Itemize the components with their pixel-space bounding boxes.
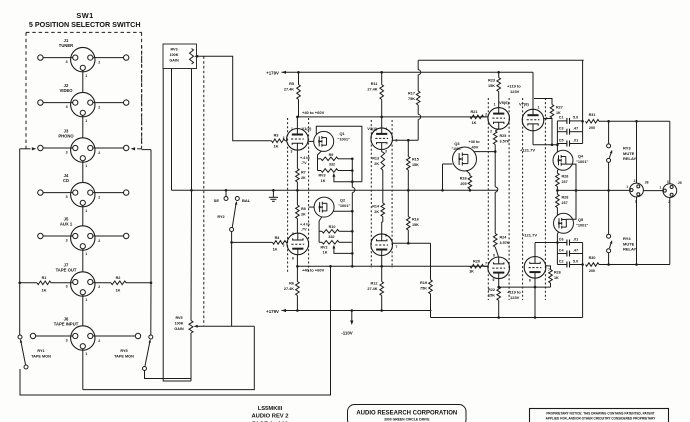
svg-text:Q3: Q3	[454, 141, 460, 146]
svg-text:27.4K: 27.4K	[367, 287, 377, 291]
gang dashed link to phono	[141, 46, 143, 144]
svg-text:27.4K: 27.4K	[284, 88, 294, 92]
svg-text:R2: R2	[116, 276, 121, 280]
svg-text:VIDEO: VIDEO	[59, 88, 73, 93]
svg-text:15K: 15K	[488, 294, 495, 298]
wire J8 pin1 output line	[557, 189, 629, 191]
svg-text:3: 3	[385, 150, 387, 154]
wire RV3 wiper to V1 grid	[197, 56, 272, 141]
svg-text:332: 332	[329, 162, 335, 166]
ground center	[272, 189, 275, 192]
svg-text:R20: R20	[473, 259, 480, 263]
resistor R27 1K	[534, 99, 552, 105]
wire phono input arrows	[20, 148, 31, 150]
svg-text:3: 3	[66, 151, 68, 155]
resistor R14 2K	[381, 203, 385, 217]
wire J2 right lead	[93, 102, 124, 104]
wire selector chain	[82, 70, 84, 92]
capacitor C6 .01	[557, 242, 567, 244]
capacitor C1 5.0	[557, 120, 567, 122]
svg-text:15K: 15K	[488, 84, 495, 88]
wire J2 left lead	[43, 102, 73, 104]
svg-text:C6: C6	[559, 237, 564, 241]
wire cap left bus lower	[557, 232, 558, 265]
svg-text:237: 237	[562, 180, 568, 184]
svg-text:332: 332	[328, 235, 334, 239]
wire RV3 leg to bus	[171, 69, 173, 191]
svg-text:7: 7	[283, 244, 285, 248]
wire Q1 drain loop	[316, 126, 362, 182]
svg-text:8: 8	[493, 254, 495, 258]
resistor R25 3.57K	[493, 131, 497, 145]
wire J4 left lead	[43, 192, 73, 194]
svg-text:1K: 1K	[469, 270, 474, 274]
triode V7(8) lower	[524, 257, 546, 279]
capacitor C5 .01	[557, 143, 567, 145]
svg-text:"1001": "1001"	[338, 136, 350, 141]
svg-text:6: 6	[493, 278, 495, 282]
wire Q1 source	[318, 151, 322, 171]
svg-text:100K: 100K	[170, 53, 179, 57]
resistor R8 2K	[296, 190, 298, 205]
svg-text:200: 200	[589, 126, 595, 130]
resistor R28 237	[557, 169, 558, 173]
svg-text:R22: R22	[488, 288, 495, 292]
svg-text:R7: R7	[301, 171, 306, 175]
wire V7 lower plate to rail	[534, 278, 536, 318]
svg-text:R13: R13	[372, 157, 379, 161]
svg-text:1K: 1K	[321, 179, 326, 183]
svg-text:RELAY: RELAY	[623, 247, 637, 252]
svg-text:27.4K: 27.4K	[284, 287, 294, 291]
svg-text:75K: 75K	[420, 287, 427, 291]
triode V5(6) upper	[488, 108, 510, 130]
resistor R26 1K	[545, 266, 550, 270]
wire Q2 drain	[334, 210, 353, 212]
svg-text:TAPE MON: TAPE MON	[114, 355, 134, 359]
svg-text:TUNER: TUNER	[59, 43, 73, 48]
wire trim right bus	[351, 159, 353, 188]
wire J3 left lead	[43, 147, 73, 149]
svg-text:+40 to +60V: +40 to +60V	[302, 267, 325, 272]
svg-text:MUTE: MUTE	[623, 151, 635, 156]
svg-text:TAPE INPUT: TAPE INPUT	[54, 322, 79, 327]
relay RY3 MUTE RELAY	[608, 121, 610, 144]
svg-text:TAPE MON: TAPE MON	[31, 355, 51, 359]
svg-text:7: 7	[548, 268, 550, 272]
resistor R29 237	[556, 194, 560, 207]
wire J4 right lead	[93, 192, 124, 194]
svg-text:R23: R23	[488, 79, 495, 83]
wire left input bus	[19, 149, 21, 283]
svg-text:3: 3	[66, 285, 68, 289]
potentiometer RV3 100K GAIN	[163, 44, 197, 69]
dashed envelope V1/V2	[287, 118, 289, 272]
svg-text:AUX 1: AUX 1	[60, 222, 73, 227]
svg-text:1: 1	[85, 74, 87, 78]
wire cap right bus upper	[582, 60, 584, 143]
svg-text:C1: C1	[559, 116, 564, 120]
svg-text:J8: J8	[645, 180, 649, 184]
switch SE contact	[225, 189, 228, 192]
wire J3 right lead	[93, 147, 124, 149]
svg-text:+179V: +179V	[266, 71, 279, 76]
svg-text:3: 3	[66, 105, 68, 109]
svg-text:CD: CD	[63, 178, 69, 183]
wire cathode to Q3	[495, 129, 499, 131]
svg-text:1K: 1K	[273, 248, 278, 252]
svg-text:5 POSITION SELECTOR SWITCH: 5 POSITION SELECTOR SWITCH	[29, 20, 141, 29]
svg-text:3: 3	[66, 239, 68, 243]
wire Q2 source	[319, 217, 322, 243]
svg-text:1K: 1K	[274, 145, 279, 149]
svg-text:1: 1	[626, 185, 628, 189]
svg-text:2: 2	[98, 339, 100, 343]
svg-text:.01: .01	[573, 138, 578, 142]
svg-text:2: 2	[98, 61, 100, 65]
svg-text:3.57K: 3.57K	[500, 139, 510, 143]
svg-text:3: 3	[66, 339, 68, 343]
svg-text:"1001": "1001"	[451, 147, 462, 151]
connector J8 output	[636, 121, 638, 183]
wire J6 throw contacts	[36, 335, 73, 337]
svg-text:2K: 2K	[374, 210, 379, 214]
svg-text:1: 1	[494, 103, 496, 107]
svg-text:8: 8	[292, 232, 294, 236]
svg-text:"1001": "1001"	[338, 203, 350, 208]
svg-text:3900 GREEN CIRCLE DRIVE: 3900 GREEN CIRCLE DRIVE	[384, 418, 430, 422]
wire Q5 source tap	[566, 190, 576, 219]
svg-text:2: 2	[283, 136, 285, 140]
svg-text:"1001": "1001"	[576, 222, 588, 227]
svg-text:15K: 15K	[412, 163, 419, 167]
svg-text:R5: R5	[289, 82, 294, 86]
svg-text:3: 3	[634, 179, 636, 183]
svg-text:2: 2	[98, 196, 100, 200]
wire V5 lower plate node	[499, 286, 551, 288]
svg-text:6: 6	[292, 257, 294, 261]
svg-text:40V: 40V	[472, 145, 479, 149]
svg-text:V3(4): V3(4)	[367, 126, 377, 131]
capacitor C2 5.0	[557, 264, 567, 266]
svg-text:1K: 1K	[556, 111, 561, 115]
triode V1(2) lower	[287, 233, 309, 255]
gang dashed link RV3-RV5	[203, 56, 205, 325]
svg-text:+179V: +179V	[266, 309, 279, 314]
resistor R18 205	[466, 170, 470, 175]
svg-text:RY3: RY3	[623, 146, 631, 151]
wire V7 upper cathode	[532, 130, 534, 144]
svg-text:.7V: .7V	[301, 228, 307, 232]
svg-text:V5(6): V5(6)	[499, 100, 509, 105]
wire -110V feed	[351, 309, 354, 312]
wire V3 plate pin2 line	[392, 139, 418, 141]
wire RY1 return	[20, 369, 26, 395]
dashed envelope V5/V6	[487, 98, 489, 300]
resistor R19 75K	[430, 243, 432, 280]
svg-text:R11: R11	[371, 82, 378, 86]
svg-text:237: 237	[562, 201, 568, 205]
svg-text:7: 7	[485, 262, 487, 266]
svg-text:2: 2	[98, 151, 100, 155]
capacitor C3 .47	[557, 131, 567, 133]
wire cap right bus lower	[582, 243, 584, 318]
svg-text:SW1: SW1	[76, 11, 93, 20]
wire V3 lower pin7 line	[392, 242, 430, 244]
resistor R24 3.57K	[493, 234, 497, 248]
svg-text:RV2: RV2	[320, 245, 327, 249]
svg-text:V7(8): V7(8)	[519, 102, 529, 107]
svg-text:.47: .47	[573, 127, 578, 131]
svg-text:C3: C3	[559, 127, 564, 131]
capacitor C4 .47	[557, 253, 567, 255]
svg-text:R25: R25	[500, 134, 507, 138]
svg-text:PHONO: PHONO	[58, 134, 74, 139]
svg-text:3: 3	[667, 180, 669, 184]
svg-text:1K: 1K	[472, 121, 477, 125]
potentiometer RV2 1K trim	[319, 241, 322, 243]
mosfet Q3	[453, 147, 477, 171]
dashed selector enclosure	[26, 31, 142, 33]
svg-text:2K: 2K	[301, 176, 306, 180]
svg-text:27.4K: 27.4K	[367, 88, 377, 92]
svg-text:R30: R30	[589, 256, 596, 260]
dashed envelope V3/V4	[370, 120, 372, 268]
svg-text:5.0: 5.0	[573, 116, 578, 120]
svg-text:3: 3	[66, 60, 68, 64]
svg-text:R18: R18	[460, 177, 467, 181]
resistor R13 2K	[381, 149, 383, 152]
svg-text:3: 3	[490, 130, 492, 134]
wire J1 left lead	[43, 57, 73, 59]
svg-text:RY1: RY1	[37, 349, 44, 353]
relay RY1 TAPE MON	[18, 335, 22, 339]
wire J1 right lead	[93, 57, 124, 59]
svg-text:RY4: RY4	[623, 236, 631, 241]
svg-text:1K: 1K	[554, 276, 559, 280]
svg-text:1: 1	[291, 127, 293, 131]
svg-text:AUDIO RESEARCH CORPORATION: AUDIO RESEARCH CORPORATION	[356, 411, 457, 417]
svg-text:1: 1	[85, 164, 87, 168]
resistor R2 2K	[296, 169, 300, 183]
svg-text:R12: R12	[371, 282, 378, 286]
svg-text:RELAY: RELAY	[623, 156, 637, 161]
title box AUDIO RESEARCH CORPORATION	[348, 405, 467, 422]
svg-text:GAIN: GAIN	[174, 327, 184, 331]
svg-text:1: 1	[85, 252, 87, 256]
switch BAL contact	[235, 197, 239, 201]
svg-text:R1: R1	[42, 276, 47, 280]
svg-text:2: 2	[485, 113, 487, 117]
wire mute bus	[608, 162, 610, 234]
svg-text:7: 7	[396, 245, 398, 249]
svg-text:-110V: -110V	[341, 331, 353, 336]
potentiometer RV3 1K trim	[318, 170, 322, 172]
svg-text:R8: R8	[301, 207, 306, 211]
mosfet Q4	[553, 150, 573, 170]
wire lower rail step	[430, 311, 432, 318]
svg-text:200: 200	[589, 269, 595, 273]
mosfet Q1	[314, 131, 334, 151]
resistor R16 15K	[407, 190, 409, 216]
wire RY5 return	[145, 371, 192, 379]
svg-text:MUTE: MUTE	[623, 241, 635, 246]
wire J9 pin1	[643, 190, 663, 192]
svg-text:Q1: Q1	[340, 131, 346, 136]
svg-text:PROPRIETARY NOTICE: THIS DRA: PROPRIETARY NOTICE: THIS DRAWING CONTAIN…	[546, 411, 654, 415]
svg-text:GAIN: GAIN	[169, 59, 179, 63]
svg-text:+40 to +60V: +40 to +60V	[302, 110, 325, 115]
svg-text:3.57K: 3.57K	[500, 241, 510, 245]
svg-text:1: 1	[85, 209, 87, 213]
svg-text:R19: R19	[420, 281, 427, 285]
svg-text:R14: R14	[372, 205, 380, 209]
svg-text:R21: R21	[471, 110, 478, 114]
wire gain-pot low return	[163, 69, 191, 382]
wire cathode link	[382, 170, 384, 203]
triode V1(2) upper	[287, 129, 309, 151]
svg-text:205: 205	[460, 182, 466, 186]
mosfet Q5	[554, 213, 574, 233]
svg-text:2: 2	[98, 106, 100, 110]
wire top rail to output	[418, 59, 584, 61]
svg-text:6: 6	[529, 279, 531, 283]
wire R24 feed link	[494, 152, 496, 187]
svg-text:Q4: Q4	[578, 154, 584, 159]
svg-text:3: 3	[66, 195, 68, 199]
svg-text:.47: .47	[573, 248, 578, 252]
wire right input bus	[150, 150, 152, 283]
svg-text:1: 1	[85, 119, 87, 123]
dashed envelope V7/V8	[522, 98, 524, 300]
svg-text:RY2: RY2	[217, 215, 224, 219]
svg-text:1K: 1K	[323, 251, 328, 255]
svg-text:Q2: Q2	[340, 198, 346, 203]
wire cap left bus upper	[556, 121, 558, 152]
svg-text:1K: 1K	[116, 289, 121, 293]
svg-text:1: 1	[85, 298, 87, 302]
connector J9 output	[669, 121, 671, 183]
svg-text:+121.7V: +121.7V	[522, 233, 537, 238]
svg-text:2K: 2K	[301, 212, 306, 216]
svg-text:1: 1	[660, 186, 662, 190]
wire J5 left lead	[43, 235, 73, 237]
svg-text:R31: R31	[589, 113, 596, 117]
relay RY4 MUTE RELAY	[607, 234, 611, 238]
svg-text:2: 2	[98, 239, 100, 243]
svg-text:R28: R28	[562, 196, 569, 200]
svg-text:123V: 123V	[510, 295, 520, 300]
svg-text:RY5: RY5	[120, 349, 127, 353]
wire RV3 to RV5 leg	[191, 69, 193, 191]
svg-text:LS5MKIII: LS5MKIII	[258, 406, 283, 412]
svg-text:.7V: .7V	[301, 161, 307, 165]
svg-text:R10: R10	[329, 225, 336, 229]
svg-text:"1001": "1001"	[576, 159, 588, 164]
triode V7(8) upper	[532, 72, 534, 109]
svg-text:R27: R27	[556, 106, 563, 110]
svg-text:TAPE OUT: TAPE OUT	[56, 268, 77, 273]
svg-text:75K: 75K	[408, 97, 415, 101]
svg-text:J9: J9	[678, 181, 682, 185]
wire center bus	[172, 189, 498, 191]
svg-text:C2: C2	[559, 259, 564, 263]
svg-text:BAL: BAL	[242, 198, 251, 203]
svg-text:123V: 123V	[510, 89, 520, 94]
svg-text:2: 2	[98, 285, 100, 289]
svg-text:R15: R15	[412, 158, 419, 162]
wire output line lower	[599, 264, 670, 266]
svg-text:V1(2): V1(2)	[302, 126, 312, 131]
svg-text:AUDIO REV 2: AUDIO REV 2	[251, 414, 288, 420]
svg-text:R28: R28	[562, 175, 569, 179]
svg-text:R26: R26	[554, 271, 561, 275]
svg-text:15K: 15K	[412, 223, 419, 227]
wire J6 pin1 return	[82, 349, 84, 390]
svg-text:RV3: RV3	[170, 48, 177, 52]
svg-text:SE: SE	[214, 198, 220, 203]
triode V5(6) lower	[488, 257, 510, 279]
svg-text:5.0: 5.0	[573, 259, 578, 263]
wire RV5 wiper	[196, 325, 254, 327]
svg-text:R6: R6	[289, 282, 294, 286]
resistor R15 15K	[407, 140, 409, 156]
svg-text:R17: R17	[408, 92, 415, 96]
proprietary notice box	[530, 409, 669, 422]
svg-text:+30 to: +30 to	[469, 140, 481, 144]
svg-text:C5: C5	[559, 138, 564, 142]
svg-text:.01: .01	[573, 237, 578, 241]
svg-text:2K: 2K	[374, 162, 379, 166]
resistor R22 15K	[498, 278, 500, 287]
svg-text:R3: R3	[274, 134, 279, 138]
svg-text:3: 3	[291, 150, 293, 154]
wire V7 lower cathode	[534, 243, 536, 257]
svg-text:1: 1	[538, 106, 540, 110]
wire J5 right lead	[93, 235, 124, 237]
wire output line upper	[599, 120, 670, 122]
svg-text:APPLIED FOR, AND/OR OTHER CIRC: APPLIED FOR, AND/OR OTHER CIRCUITRY CONS…	[546, 416, 657, 420]
svg-text:RV5: RV5	[175, 316, 182, 320]
svg-text:+119 to: +119 to	[507, 84, 521, 89]
svg-text:RV3: RV3	[318, 174, 325, 178]
svg-text:100K: 100K	[175, 322, 184, 326]
svg-text:1: 1	[85, 352, 87, 356]
svg-text:6: 6	[385, 234, 387, 238]
triode V3(4) lower	[371, 234, 393, 256]
svg-text:1: 1	[386, 127, 388, 131]
mosfet Q2	[314, 197, 334, 217]
triode V3(4) upper	[371, 128, 393, 150]
svg-text:1K: 1K	[42, 289, 47, 293]
wire Q4 source tap	[566, 164, 576, 190]
wire Q3 gate	[443, 163, 453, 165]
svg-text:R16: R16	[412, 218, 419, 222]
relay RY5 TAPE MON	[149, 335, 153, 339]
svg-text:R24: R24	[500, 236, 508, 240]
svg-text:Q5: Q5	[578, 217, 584, 222]
